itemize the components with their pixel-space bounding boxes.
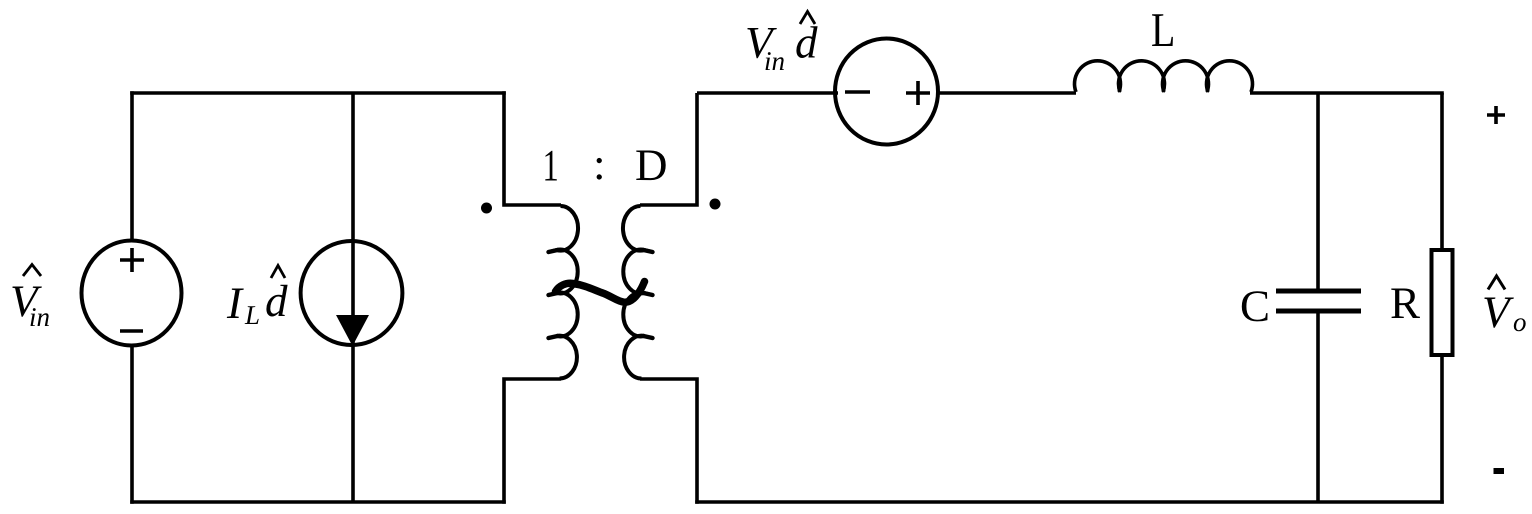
- wire resistor branch bottom: [1440, 355, 1444, 504]
- capacitor C top plate: [1276, 289, 1361, 294]
- voltage source V_in circle: [82, 241, 182, 346]
- wire capacitor branch top: [1316, 93, 1320, 289]
- label 1 (turns ratio): [545, 151, 557, 181]
- output minus terminal sign: [1494, 468, 1505, 474]
- label d hat (dependent source): [800, 12, 815, 25]
- label D (turns ratio): [636, 151, 665, 181]
- minus sign inside V_in*d source: [845, 90, 870, 94]
- transformer primary dot: [481, 203, 492, 214]
- label V_in (dependent source): [747, 28, 776, 58]
- label V_o subscript: [1514, 318, 1526, 331]
- transformer primary winding: [557, 206, 579, 379]
- wire bottom-left rail: [130, 500, 506, 504]
- resistor R body: [1432, 250, 1453, 355]
- label V_in hat: [23, 265, 41, 277]
- transformer secondary winding: [623, 206, 645, 379]
- wire top-left rail: [130, 91, 506, 95]
- label V_in subscript (dependent source): [766, 52, 784, 70]
- capacitor C bottom plate: [1276, 309, 1361, 314]
- voltage source V_in*d circle: [835, 39, 938, 145]
- label V_in subscript: [31, 308, 49, 326]
- transformer secondary dot: [710, 199, 721, 210]
- inductor L winding: [1075, 61, 1121, 92]
- output plus terminal sign: [1487, 106, 1505, 124]
- label d (current source): [266, 285, 287, 317]
- label V_in: [12, 287, 41, 317]
- label d (dependent source): [796, 26, 817, 58]
- wire top rail from source to inductor: [939, 91, 1076, 95]
- label L (inductor): [1152, 14, 1173, 46]
- wire transformer secondary bottom stub: [640, 379, 699, 504]
- label V_o hat: [1488, 276, 1505, 290]
- wire transformer primary top stub: [502, 91, 561, 205]
- transformer primary winding horn tails: [549, 250, 558, 338]
- transformer core squiggle: [556, 282, 645, 303]
- wire capacitor branch bottom: [1316, 313, 1320, 502]
- label V_o: [1484, 298, 1513, 328]
- wire current-source branch vertical: [351, 93, 355, 502]
- label d hat (current source): [271, 266, 285, 279]
- label I_L: [227, 289, 244, 319]
- current source arrow: [336, 315, 369, 346]
- plus sign inside V_in*d source: [906, 81, 930, 105]
- label : (turns ratio): [597, 158, 602, 180]
- label I_L subscript: [245, 306, 259, 324]
- wire top rail from secondary to source: [697, 91, 838, 95]
- transformer secondary winding horn tails: [644, 250, 653, 338]
- wire transformer primary bottom stub: [502, 379, 561, 504]
- label C (capacitor): [1242, 291, 1268, 321]
- current source I_L d circle: [301, 241, 403, 345]
- wire transformer secondary top stub: [640, 93, 699, 205]
- wire top rail from inductor to output: [1250, 91, 1444, 95]
- label R (resistor): [1391, 289, 1420, 319]
- minus sign inside V_in source: [120, 329, 143, 333]
- wire bottom-right rail: [695, 500, 1444, 504]
- wire left vertical (top): [130, 91, 134, 241]
- wire resistor branch top: [1440, 93, 1444, 250]
- plus sign inside V_in source: [120, 248, 144, 272]
- wire left vertical (bottom): [130, 346, 134, 504]
